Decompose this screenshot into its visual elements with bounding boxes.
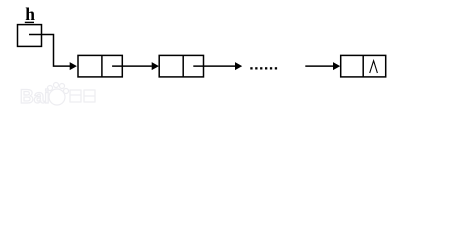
ellipsis dots — [250, 67, 277, 69]
null mark caret — [370, 61, 378, 73]
arrowhead into node 2 — [152, 62, 159, 70]
arrowhead toward ellipsis — [235, 62, 242, 70]
arrowhead into last node — [333, 62, 340, 70]
underline of h — [25, 22, 34, 23]
last node box — [341, 55, 386, 77]
node 2 box — [159, 55, 203, 77]
svg-text:h: h — [25, 4, 35, 24]
head box h — [18, 25, 42, 47]
node 2 divider — [182, 55, 184, 77]
wire toward last node — [305, 65, 333, 67]
arrowhead into node 1 — [70, 62, 77, 70]
node 1 box — [78, 55, 122, 77]
watermark Baidu Baike — [20, 83, 95, 109]
node 1 divider — [101, 55, 103, 77]
svg-text:Bai: Bai — [20, 87, 50, 108]
wire from head box — [29, 35, 70, 67]
wire node1 next — [112, 65, 152, 67]
wire node2 next — [193, 65, 235, 67]
last node divider — [362, 55, 364, 77]
